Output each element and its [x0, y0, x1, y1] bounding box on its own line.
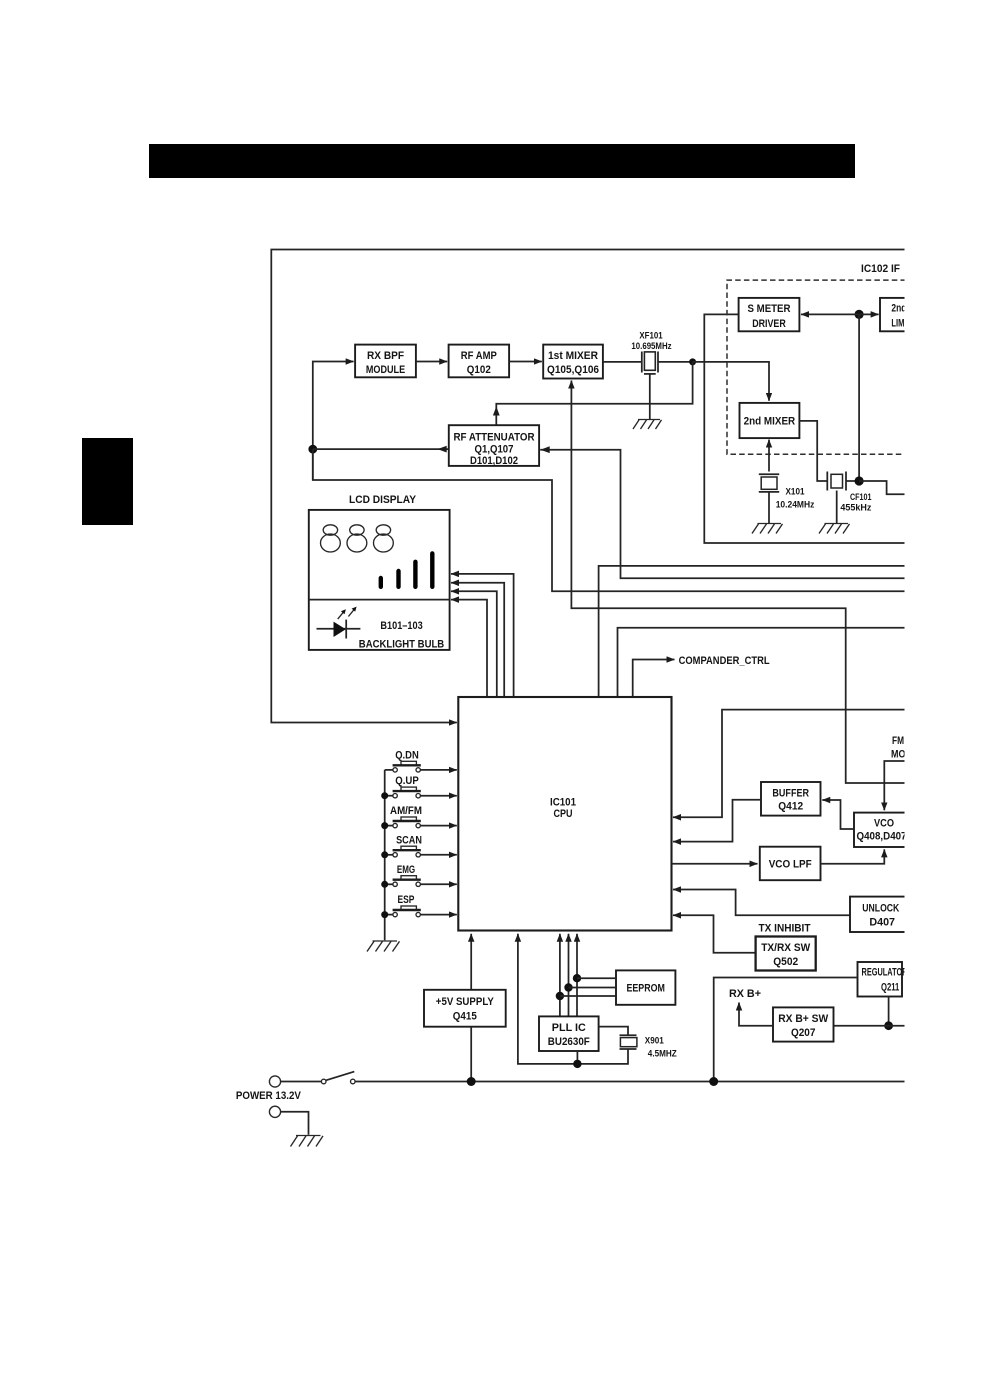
wire RF ATTENUATOR right to IF bus [540, 450, 906, 579]
svg-text:Q102: Q102 [467, 364, 491, 376]
svg-text:2nd MIXER: 2nd MIXER [744, 416, 796, 428]
svg-text:S METER: S METER [748, 303, 791, 315]
svg-text:D407: D407 [869, 916, 895, 928]
pll block PLL IC BU2630F [539, 1016, 599, 1051]
wire +5V SUPPLY to power rail [470, 1027, 472, 1082]
node EEPROM tap 1 [573, 974, 581, 982]
svg-text:VCO: VCO [874, 817, 894, 829]
wire VCO LPF to VCO bottom [821, 849, 885, 863]
wire CPU to LCD data 4 [451, 600, 487, 697]
wire VCO to BUFFER [822, 800, 854, 829]
mixer block 2nd MIXER [740, 403, 800, 438]
svg-text:Q211: Q211 [881, 981, 899, 993]
LCD digit 8 (2) [347, 525, 367, 552]
LCD digit 8 (3) [374, 525, 394, 552]
svg-text:Q.DN: Q.DN [395, 749, 419, 761]
wire BUFFER to CPU [673, 800, 761, 842]
svg-text:CPU: CPU [554, 808, 573, 820]
svg-text:Q.UP: Q.UP [395, 775, 419, 787]
pushbutton Q.DN [385, 749, 457, 772]
wire terminal to switch [281, 1081, 322, 1083]
svg-text:SCAN: SCAN [396, 834, 422, 846]
svg-text:10.695MHz: 10.695MHz [631, 341, 671, 352]
svg-text:REGULATOR: REGULATOR [862, 966, 908, 978]
node EEPROM tap 3 [556, 992, 564, 1000]
LED backlight symbol B101-103 [317, 628, 361, 630]
wire tap 1 to EEPROM [577, 977, 616, 979]
vco block VCO Q408,D407 (cut at page edge) [854, 813, 910, 847]
svg-text:1st MIXER: 1st MIXER [548, 350, 598, 362]
pushbutton ESP [381, 894, 457, 918]
svg-text:EEPROM: EEPROM [626, 983, 665, 995]
svg-text:Q412: Q412 [778, 800, 803, 812]
svg-text:2nd: 2nd [891, 303, 906, 315]
wire XF101 ground stem [649, 374, 651, 419]
wire tap 3 to EEPROM [560, 995, 616, 997]
wire TX/RX SW to CPU [673, 915, 756, 953]
wire CF101 node to page edge [859, 481, 906, 494]
filter block VCO LPF [760, 847, 821, 881]
wire 2nd MIXER to CF101 [799, 421, 827, 481]
svg-text:MOD: MOD [891, 749, 912, 761]
wire X101 to 2nd MIXER bottom [768, 440, 770, 472]
wire node down to CF101 node [858, 314, 860, 481]
node RX input junction [308, 445, 317, 454]
node IF junction [855, 310, 864, 319]
wire tap 2 to EEPROM [569, 987, 617, 989]
LCD digit 8 (1) [321, 525, 341, 552]
node EEPROM tap 2 [564, 983, 572, 991]
net RX B+ [739, 1003, 773, 1026]
svg-text:VCO LPF: VCO LPF [769, 859, 812, 871]
wire FM MOD to VCO top [884, 761, 906, 810]
wire X901 bottom loop to CPU [518, 934, 628, 1064]
wire XF101 to node [658, 361, 693, 363]
limiter block 2nd LIMITER (cut at page edge) [880, 298, 920, 331]
wire REGULATOR down to node [888, 997, 890, 1026]
svg-text:X901: X901 [645, 1036, 665, 1047]
terminal POWER 13.2V positive [269, 1076, 280, 1087]
mixer block 1st MIXER Q105,Q106 [543, 345, 603, 379]
svg-text:Q1,Q107: Q1,Q107 [475, 444, 514, 456]
wire power rail to REGULATOR [714, 978, 857, 1082]
wire RF AMP to 1st MIXER [509, 361, 542, 363]
svg-text:ESP: ESP [398, 894, 415, 906]
svg-text:LCD DISPLAY: LCD DISPLAY [349, 494, 417, 506]
title bar (redacted heading) [149, 144, 855, 178]
svg-text:COMPANDER_CTRL: COMPANDER_CTRL [679, 655, 770, 667]
wire PLL bottom pin [576, 1051, 578, 1064]
switch block TX/RX SW Q502 [756, 937, 816, 971]
wire UNLOCK to CPU [673, 890, 850, 916]
svg-text:XF101: XF101 [639, 330, 663, 341]
wire CPU to PLL data 3 [559, 934, 561, 1017]
svg-text:10.24MHz: 10.24MHz [776, 500, 815, 511]
svg-text:POWER 13.2V: POWER 13.2V [236, 1090, 302, 1102]
wire terminal to ground [281, 1112, 309, 1135]
svg-text:X101: X101 [786, 487, 806, 498]
ceramic filter CF101 [827, 472, 846, 491]
svg-text:Q408,D407: Q408,D407 [857, 830, 907, 842]
regulator block REGULATOR Q211 [858, 962, 903, 997]
amplifier block RF AMP Q102 [449, 345, 510, 378]
svg-text:BACKLIGHT BULB: BACKLIGHT BULB [359, 638, 444, 650]
terminal POWER 13.2V negative [269, 1106, 280, 1117]
display block LCD [309, 510, 450, 650]
switch power on/off [321, 1079, 326, 1084]
wire PLL to X901 [599, 1027, 628, 1036]
wire CPU to PLL data 1 [576, 934, 578, 1017]
arrow up at RF ATTENUATOR top [493, 407, 500, 416]
svg-text:AM/FM: AM/FM [390, 805, 422, 817]
crystal X101 [759, 474, 779, 492]
svg-text:TX/RX SW: TX/RX SW [761, 942, 811, 954]
svg-text:IC101: IC101 [550, 797, 576, 809]
resistor block RX BPF MODULE [355, 345, 416, 378]
svg-text:4.5MHZ: 4.5MHZ [648, 1049, 677, 1060]
pushbutton Q.UP [381, 775, 457, 799]
LCD divider [309, 599, 450, 601]
svg-text:D101,D102: D101,D102 [470, 455, 518, 467]
svg-text:RX BPF: RX BPF [367, 350, 404, 362]
ground under XF101 [633, 420, 662, 430]
cpu block IC101 CPU [458, 697, 671, 931]
svg-text:+5V SUPPLY: +5V SUPPLY [436, 996, 495, 1008]
net COMPANDER_CTRL [633, 660, 675, 698]
wire FM MOD line to CPU [673, 710, 906, 818]
ground power input [291, 1136, 324, 1147]
wire CF101 to node [846, 480, 859, 482]
IC102 IF section dashed box [727, 280, 906, 454]
svg-text:Q207: Q207 [791, 1027, 816, 1039]
attenuator block RF ATTENUATOR Q1,Q107 D101,D102 [449, 425, 539, 466]
wire CPU to LCD data 1 [451, 574, 514, 697]
svg-text:MODULE: MODULE [366, 364, 405, 376]
arrow into RF ATTENUATOR right [541, 446, 550, 453]
arrow on RF ATT left wire [438, 446, 447, 453]
wire junction down to bus line [313, 449, 906, 591]
svg-text:BU2630F: BU2630F [548, 1036, 590, 1048]
wire CPU to LCD data 2 [451, 583, 504, 697]
svg-text:FM: FM [892, 735, 904, 747]
wire S METER DRIVER left down to bus 543 [704, 314, 906, 543]
node CF101 junction [855, 476, 864, 485]
wire 1st MIXER to XF101 [603, 361, 642, 363]
node XF101 output junction [689, 358, 696, 365]
svg-text:Q105,Q106: Q105,Q106 [547, 364, 599, 376]
wire node to 2nd limiter [859, 313, 879, 315]
node power rail at regulator feed [709, 1077, 718, 1086]
svg-text:455kHz: 455kHz [840, 502, 871, 513]
svg-text:UNLOCK: UNLOCK [862, 903, 899, 915]
node PLL bottom junction [573, 1060, 581, 1068]
wire 1st MIXER bottom to bus 608 and 783 [571, 381, 906, 784]
LCD signal bars [381, 553, 433, 586]
wire CPU to VCO LPF [672, 863, 758, 865]
svg-text:IC102 IF: IC102 IF [861, 263, 900, 275]
supply block +5V SUPPLY Q415 [470, 934, 472, 990]
svg-text:RX B+ SW: RX B+ SW [778, 1013, 829, 1025]
wire button common rail [384, 770, 386, 940]
wire CPU to bus line 628 [618, 628, 907, 697]
unlock block UNLOCK D407 (cut at page edge) [850, 897, 906, 932]
wire CPU to PLL data 2 [568, 934, 570, 1017]
crystal filter XF101 [642, 352, 658, 373]
power rail 13.2V [355, 1081, 906, 1083]
crystal X901 [620, 1035, 637, 1049]
wire node to 2nd MIXER [693, 362, 769, 401]
ground under buttons [367, 941, 400, 952]
ground under X101 [752, 524, 783, 534]
svg-text:BUFFER: BUFFER [772, 787, 809, 799]
wire RX B+ SW to page edge [834, 1025, 907, 1027]
wire node down to RF ATTENUATOR top [496, 362, 692, 425]
node regulator junction [884, 1021, 893, 1030]
svg-text:PLL IC: PLL IC [552, 1022, 586, 1034]
svg-text:Q415: Q415 [453, 1010, 477, 1022]
ground under CF101 [819, 524, 850, 534]
svg-text:RF ATTENUATOR: RF ATTENUATOR [454, 432, 535, 444]
wire CPU to LCD data 3 [451, 591, 497, 697]
wire RX BPF to RF AMP [416, 361, 447, 363]
wire outer frame / antenna line into CPU [271, 250, 906, 723]
svg-text:LIM: LIM [891, 318, 904, 330]
svg-text:Q502: Q502 [773, 956, 798, 968]
node power rail at +5V [467, 1077, 476, 1086]
switch block RX B+ SW Q207 [773, 1007, 834, 1041]
svg-text:DRIVER: DRIVER [752, 318, 786, 330]
wire CF101 ground stem [836, 491, 838, 524]
svg-text:EMG: EMG [397, 864, 415, 876]
wire CPU to bus line 566 [599, 566, 906, 697]
svg-text:B101–103: B101–103 [380, 620, 422, 632]
buffer block BUFFER Q412 [761, 782, 821, 816]
pushbutton EMG [381, 864, 457, 888]
meter block S METER DRIVER [739, 298, 800, 331]
pushbutton AM/FM [381, 805, 457, 829]
left page tab [82, 438, 133, 525]
wire X101 ground stem [768, 492, 770, 523]
eeprom block EEPROM [616, 970, 675, 1004]
wire RF ATT to junction [313, 448, 449, 450]
svg-text:RF AMP: RF AMP [461, 350, 497, 362]
wire node to S METER DRIVER [801, 313, 859, 315]
wire RX input riser [313, 362, 354, 481]
svg-text:TX INHIBIT: TX INHIBIT [759, 922, 811, 934]
svg-text:RX B+: RX B+ [729, 988, 761, 1000]
pushbutton SCAN [381, 834, 457, 858]
